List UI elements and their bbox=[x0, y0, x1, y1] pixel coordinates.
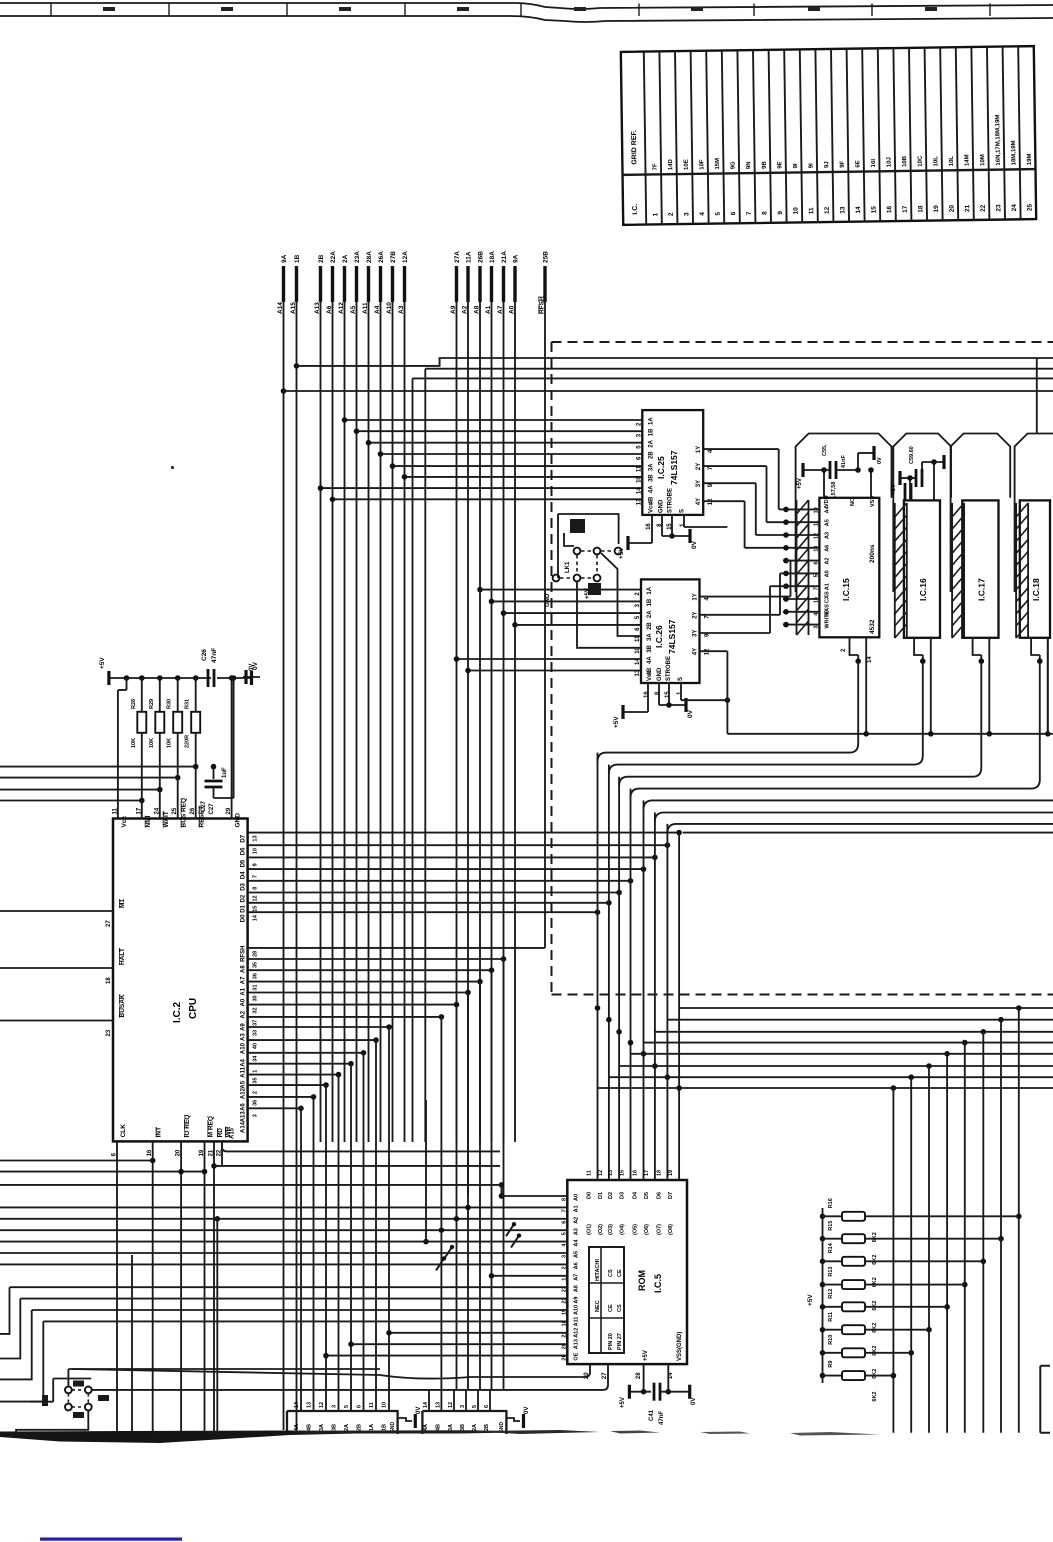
svg-text:C27: C27 bbox=[209, 803, 215, 815]
svg-text:A1: A1 bbox=[573, 1205, 579, 1212]
svg-text:D4: D4 bbox=[633, 1191, 639, 1199]
svg-text:10: 10 bbox=[253, 848, 259, 854]
svg-text:1: 1 bbox=[253, 1070, 259, 1073]
svg-text:6K2: 6K2 bbox=[872, 1232, 878, 1242]
svg-text:5: 5 bbox=[344, 1405, 350, 1408]
svg-text:A14: A14 bbox=[241, 1121, 247, 1133]
svg-text:10: 10 bbox=[636, 476, 642, 483]
svg-text:(O3): (O3) bbox=[608, 1224, 614, 1235]
svg-text:(O8): (O8) bbox=[668, 1224, 674, 1235]
svg-text:18A: 18A bbox=[489, 251, 496, 263]
svg-text:D7: D7 bbox=[668, 1192, 674, 1199]
svg-text:26A: 26A bbox=[378, 251, 385, 263]
svg-text:5: 5 bbox=[715, 211, 722, 215]
svg-text:15: 15 bbox=[620, 1170, 626, 1176]
svg-text:47nF: 47nF bbox=[659, 1411, 665, 1425]
svg-text:STROBE: STROBE bbox=[666, 656, 672, 681]
resistor R10 6K2 bbox=[820, 1335, 912, 1379]
CPU bottom pin verticals bbox=[117, 1141, 500, 1433]
svg-text:0V: 0V bbox=[687, 709, 694, 718]
capacitor C26 47nF bbox=[201, 648, 259, 687]
ink speck bbox=[171, 466, 174, 469]
svg-text:15: 15 bbox=[253, 906, 259, 912]
ROM power rail with C41 bbox=[620, 1364, 697, 1425]
svg-text:13: 13 bbox=[839, 206, 846, 214]
svg-text:R30: R30 bbox=[167, 699, 173, 709]
address line A11 (edge tag 28A) bbox=[362, 251, 373, 314]
svg-text:BUS REQ: BUS REQ bbox=[181, 798, 188, 828]
RAM IC15 bus ribbon bbox=[796, 500, 798, 635]
svg-text:CE: CE bbox=[608, 1304, 614, 1312]
svg-text:BUSAK: BUSAK bbox=[119, 994, 126, 1017]
svg-text:+5V: +5V bbox=[797, 478, 803, 489]
svg-text:(O5): (O5) bbox=[633, 1224, 639, 1235]
connector box IC (bottom left, cut off) bbox=[287, 1401, 422, 1434]
svg-text:18: 18 bbox=[917, 205, 924, 213]
svg-text:(O1): (O1) bbox=[587, 1224, 593, 1235]
svg-text:220R: 220R bbox=[185, 735, 191, 748]
svg-text:1B: 1B bbox=[647, 598, 653, 606]
svg-text:GRID REF.: GRID REF. bbox=[631, 130, 638, 165]
svg-text:(O2): (O2) bbox=[598, 1224, 604, 1235]
svg-text:C59,60: C59,60 bbox=[909, 446, 915, 464]
svg-text:3: 3 bbox=[813, 626, 819, 629]
svg-text:A7: A7 bbox=[241, 976, 247, 984]
svg-text:9A: 9A bbox=[281, 254, 288, 263]
svg-text:74LS157: 74LS157 bbox=[667, 619, 677, 654]
svg-text:13: 13 bbox=[307, 1402, 313, 1408]
svg-text:18M,19M: 18M,19M bbox=[1011, 140, 1017, 165]
svg-text:4B: 4B bbox=[435, 1424, 441, 1431]
RAM address pin stub wires bbox=[783, 507, 819, 628]
svg-text:10J: 10J bbox=[887, 157, 893, 167]
svg-text:CS: CS bbox=[617, 1304, 623, 1312]
resistor R11 6K2 bbox=[820, 1312, 929, 1356]
svg-text:74LS157: 74LS157 bbox=[669, 450, 679, 485]
svg-text:1B: 1B bbox=[382, 1424, 388, 1431]
svg-text:12: 12 bbox=[448, 1402, 454, 1408]
svg-text:ROM: ROM bbox=[637, 1270, 647, 1291]
svg-text:C27: C27 bbox=[201, 800, 207, 812]
svg-text:INT: INT bbox=[156, 1127, 163, 1138]
svg-text:A12: A12 bbox=[241, 1087, 247, 1099]
svg-text:I.C.17: I.C.17 bbox=[976, 578, 986, 601]
multiplexer IC26 74LS157 bbox=[454, 579, 711, 698]
resistor R31 220R bbox=[185, 678, 201, 767]
svg-text:31: 31 bbox=[253, 984, 259, 990]
svg-text:A6: A6 bbox=[573, 1262, 579, 1269]
svg-text:10L: 10L bbox=[949, 156, 955, 167]
svg-text:+5V: +5V bbox=[807, 1294, 814, 1306]
resistor R13 6K2 bbox=[820, 1267, 965, 1311]
svg-text:10M: 10M bbox=[980, 154, 986, 166]
svg-text:2: 2 bbox=[668, 212, 675, 216]
address line A7 (edge tag 21A) bbox=[497, 251, 508, 314]
svg-text:6K2: 6K2 bbox=[872, 1369, 878, 1379]
svg-text:19: 19 bbox=[933, 205, 940, 213]
svg-text:40: 40 bbox=[253, 1043, 259, 1049]
svg-text:14: 14 bbox=[867, 656, 873, 663]
svg-text:10K: 10K bbox=[149, 738, 155, 748]
svg-text:R16: R16 bbox=[828, 1198, 834, 1208]
svg-text:25: 25 bbox=[1027, 204, 1034, 212]
svg-text:0V: 0V bbox=[691, 540, 698, 549]
svg-text:D1: D1 bbox=[241, 904, 247, 912]
svg-text:I.C.16: I.C.16 bbox=[918, 578, 928, 601]
svg-text:Vcc: Vcc bbox=[121, 816, 128, 828]
svg-text:+5V: +5V bbox=[99, 657, 106, 669]
svg-text:A5: A5 bbox=[824, 519, 830, 526]
svg-text:NMI: NMI bbox=[145, 815, 152, 827]
svg-text:3: 3 bbox=[561, 1255, 567, 1258]
svg-text:14: 14 bbox=[855, 206, 862, 214]
svg-text:17: 17 bbox=[902, 205, 909, 213]
svg-text:A7: A7 bbox=[573, 1274, 579, 1281]
bus wires from A15 A14 to right edge bbox=[281, 358, 1053, 1142]
svg-text:2A: 2A bbox=[648, 439, 654, 447]
svg-text:2A: 2A bbox=[342, 254, 349, 263]
address line A8 (edge tag 26B) bbox=[474, 251, 485, 314]
svg-text:13: 13 bbox=[608, 1170, 614, 1176]
svg-text:30: 30 bbox=[253, 995, 259, 1001]
svg-text:5: 5 bbox=[561, 1232, 567, 1235]
svg-text:M REQ: M REQ bbox=[208, 1116, 215, 1137]
svg-text:10: 10 bbox=[793, 207, 800, 215]
+5V rail above CPU bbox=[99, 657, 252, 819]
svg-text:11: 11 bbox=[636, 465, 642, 472]
svg-text:18: 18 bbox=[656, 1170, 662, 1176]
svg-text:IO REQ: IO REQ bbox=[184, 1115, 191, 1138]
svg-text:A4: A4 bbox=[573, 1239, 579, 1247]
svg-text:34: 34 bbox=[253, 1055, 259, 1062]
svg-text:A8: A8 bbox=[241, 965, 247, 973]
svg-text:I.C.25: I.C.25 bbox=[656, 456, 666, 479]
svg-text:23: 23 bbox=[106, 1029, 112, 1036]
svg-text:I.C.5: I.C.5 bbox=[653, 1274, 663, 1293]
svg-text:I.C.26: I.C.26 bbox=[654, 625, 664, 648]
svg-text:S: S bbox=[679, 509, 685, 513]
address line A13 (edge tag 2B) bbox=[314, 254, 325, 314]
svg-text:36: 36 bbox=[253, 1100, 259, 1106]
RAM IC15 bottom pins bbox=[841, 637, 873, 734]
svg-text:9E: 9E bbox=[777, 161, 783, 168]
svg-text:R15: R15 bbox=[828, 1221, 834, 1231]
svg-text:RFSH: RFSH bbox=[241, 946, 247, 962]
svg-text:A9: A9 bbox=[573, 1297, 579, 1304]
svg-text:12: 12 bbox=[824, 206, 831, 214]
svg-text:D6: D6 bbox=[241, 847, 247, 855]
svg-text:15: 15 bbox=[871, 206, 878, 214]
svg-text:18: 18 bbox=[106, 977, 112, 984]
svg-text:D2: D2 bbox=[241, 894, 247, 902]
svg-text:A6: A6 bbox=[241, 1103, 247, 1111]
svg-text:13: 13 bbox=[435, 1402, 441, 1408]
svg-text:4532: 4532 bbox=[869, 619, 876, 634]
svg-text:10L: 10L bbox=[933, 156, 939, 167]
svg-text:2B: 2B bbox=[648, 451, 654, 459]
resistor R9 6K2 bbox=[820, 1361, 894, 1402]
blue pen underline bottom left bbox=[40, 1538, 182, 1541]
svg-text:17: 17 bbox=[644, 1170, 650, 1176]
address line A10 (edge tag 27B) bbox=[386, 251, 397, 314]
svg-text:11A: 11A bbox=[466, 251, 473, 263]
svg-text:4A: 4A bbox=[423, 1424, 429, 1431]
svg-text:+5V: +5V bbox=[613, 716, 620, 728]
svg-text:CPU: CPU bbox=[188, 998, 199, 1019]
address line A5 (edge tag 23A) bbox=[350, 251, 361, 314]
svg-text:9I: 9I bbox=[793, 163, 799, 168]
svg-text:D6: D6 bbox=[656, 1192, 662, 1199]
svg-text:6: 6 bbox=[561, 1221, 567, 1224]
svg-text:13: 13 bbox=[636, 498, 642, 505]
svg-text:4Y: 4Y bbox=[693, 648, 699, 655]
svg-text:16I: 16I bbox=[871, 159, 877, 168]
RAM IC18 bottom pins bbox=[1031, 638, 1048, 734]
svg-text:D3: D3 bbox=[241, 882, 247, 890]
svg-text:20: 20 bbox=[949, 205, 956, 213]
connector box IC (bottom middle, cut off) bbox=[422, 1390, 530, 1434]
svg-text:CLK: CLK bbox=[120, 1124, 127, 1138]
svg-text:3A: 3A bbox=[647, 633, 653, 641]
svg-text:PIN 20: PIN 20 bbox=[608, 1333, 614, 1350]
svg-text:3B: 3B bbox=[647, 644, 653, 652]
scanner edge smear bbox=[0, 1430, 880, 1443]
svg-text:D7: D7 bbox=[241, 834, 247, 842]
RAM IC15 envelope bbox=[796, 434, 892, 593]
svg-text:9J: 9J bbox=[824, 161, 830, 168]
svg-text:9I: 9I bbox=[809, 163, 815, 168]
svg-text:VDD: VDD bbox=[824, 495, 830, 507]
svg-text:28A: 28A bbox=[366, 251, 373, 263]
CPU control input taps from left edge bbox=[0, 675, 234, 818]
address line A4 (edge tag 26A) bbox=[374, 251, 385, 314]
svg-text:2A: 2A bbox=[647, 610, 653, 618]
svg-text:28: 28 bbox=[636, 1372, 642, 1379]
svg-text:16: 16 bbox=[644, 691, 650, 698]
svg-text:7: 7 bbox=[813, 587, 819, 590]
IC grid-reference table bbox=[621, 46, 1036, 225]
svg-text:3Y: 3Y bbox=[696, 480, 702, 487]
svg-text:6K2: 6K2 bbox=[872, 1323, 878, 1333]
ROM address pin wires bbox=[0, 1100, 567, 1433]
svg-text:3B: 3B bbox=[332, 1424, 338, 1431]
svg-text:3A: 3A bbox=[319, 1424, 325, 1431]
left edge elbow wires to ROM pins bbox=[0, 1287, 43, 1401]
RAM IC16 decoupling capacitors C59 C60 bbox=[891, 446, 944, 501]
svg-text:HALT: HALT bbox=[119, 948, 126, 965]
dashed boundary top horizontal bbox=[552, 341, 1053, 343]
address bus vertical wires from top labels bbox=[284, 300, 546, 1430]
svg-text:R28: R28 bbox=[131, 699, 137, 709]
svg-text:1: 1 bbox=[561, 1278, 567, 1281]
svg-text:25B: 25B bbox=[543, 251, 550, 263]
IC26 power wiring bbox=[613, 683, 730, 728]
CPU IC2 bbox=[0, 798, 259, 1157]
svg-text:14D: 14D bbox=[668, 158, 674, 170]
svg-text:(O6): (O6) bbox=[644, 1224, 650, 1235]
svg-text:A3: A3 bbox=[573, 1228, 579, 1235]
svg-text:41nF: 41nF bbox=[841, 455, 847, 468]
svg-text:1B: 1B bbox=[294, 254, 301, 263]
svg-text:24: 24 bbox=[1011, 204, 1018, 212]
svg-text:12: 12 bbox=[598, 1170, 604, 1176]
RAM IC15 4532 bbox=[813, 495, 879, 637]
svg-text:12A: 12A bbox=[402, 251, 409, 263]
svg-text:A6: A6 bbox=[824, 545, 830, 552]
svg-text:10: 10 bbox=[813, 507, 819, 513]
RAM WRITE line from IC26 4Y bbox=[700, 638, 1053, 737]
svg-text:HITACHI: HITACHI bbox=[595, 1259, 601, 1281]
svg-text:12: 12 bbox=[319, 1402, 325, 1408]
svg-text:R29: R29 bbox=[149, 699, 155, 709]
svg-text:WAIT: WAIT bbox=[163, 811, 170, 827]
link block LK2 bottom left bbox=[16, 1369, 380, 1434]
svg-text:3: 3 bbox=[253, 1114, 259, 1117]
svg-text:27: 27 bbox=[106, 920, 112, 927]
svg-text:21A: 21A bbox=[501, 251, 508, 263]
CPU data bus D7-D0 wires to ROM verticals bbox=[248, 753, 1053, 1433]
RAM IC16 bus ribbon bbox=[894, 503, 896, 638]
svg-text:D0: D0 bbox=[587, 1192, 593, 1199]
svg-text:14: 14 bbox=[423, 1401, 429, 1408]
svg-text:WRITE: WRITE bbox=[824, 611, 830, 629]
svg-text:R31: R31 bbox=[185, 699, 191, 709]
svg-text:7F: 7F bbox=[653, 163, 659, 170]
svg-text:3: 3 bbox=[332, 1405, 338, 1408]
svg-text:9A: 9A bbox=[513, 254, 520, 263]
address line A6 (edge tag 22A) bbox=[326, 251, 337, 314]
svg-text:A3: A3 bbox=[241, 1033, 247, 1041]
RAM data bus fan wires bbox=[598, 661, 1053, 833]
svg-text:I.C.2: I.C.2 bbox=[172, 1001, 183, 1023]
svg-text:16: 16 bbox=[633, 1170, 639, 1176]
svg-text:1A: 1A bbox=[647, 586, 653, 594]
svg-text:C55,: C55, bbox=[822, 444, 828, 456]
descending bus verticals below CPU bbox=[301, 959, 504, 1411]
svg-text:4A: 4A bbox=[647, 656, 653, 664]
svg-text:1uF: 1uF bbox=[222, 767, 228, 778]
IC25 output wires to RAM address pins bbox=[703, 449, 786, 548]
svg-text:(O4): (O4) bbox=[620, 1224, 626, 1235]
svg-text:10: 10 bbox=[382, 1402, 388, 1408]
svg-text:D5: D5 bbox=[644, 1192, 650, 1199]
svg-text:15: 15 bbox=[665, 691, 671, 698]
svg-text:S: S bbox=[678, 677, 684, 681]
svg-text:2Y: 2Y bbox=[693, 611, 699, 618]
svg-text:9: 9 bbox=[253, 863, 259, 866]
RAM IC18 bus ribbon bbox=[1015, 503, 1017, 638]
address line A15 (edge tag 1B) bbox=[290, 254, 301, 314]
dashed boundary bottom horizontal bbox=[552, 994, 1053, 996]
svg-text:R13: R13 bbox=[828, 1267, 834, 1277]
svg-text:R9: R9 bbox=[828, 1361, 834, 1368]
edge connector fragment right margin bbox=[1040, 1366, 1050, 1433]
svg-text:1Y: 1Y bbox=[696, 446, 702, 453]
svg-text:A10: A10 bbox=[241, 1042, 247, 1054]
svg-text:A5: A5 bbox=[241, 1080, 247, 1088]
svg-text:33: 33 bbox=[253, 1030, 259, 1036]
RAM IC15 decoupling capacitors C55-58 bbox=[797, 444, 883, 503]
svg-text:3A: 3A bbox=[648, 463, 654, 471]
svg-text:CE: CE bbox=[617, 1269, 623, 1277]
svg-text:27B: 27B bbox=[390, 251, 397, 263]
svg-text:M1: M1 bbox=[119, 899, 126, 908]
svg-text:8: 8 bbox=[253, 887, 259, 890]
address line A1 (edge tag 18A) bbox=[485, 251, 496, 314]
0V terminal left of bundle bbox=[243, 664, 260, 684]
address line A3 (edge tag 12A) bbox=[398, 251, 409, 314]
svg-text:10F: 10F bbox=[699, 159, 705, 170]
svg-text:10K: 10K bbox=[131, 738, 137, 748]
IC25 power wiring bbox=[618, 515, 727, 559]
svg-text:3B: 3B bbox=[648, 474, 654, 482]
svg-text:A0: A0 bbox=[824, 570, 830, 577]
svg-text:R14: R14 bbox=[828, 1242, 834, 1253]
svg-text:2A: 2A bbox=[472, 1424, 478, 1431]
svg-text:9F: 9F bbox=[840, 160, 846, 167]
svg-text:I.C.: I.C. bbox=[632, 204, 639, 215]
svg-text:23A: 23A bbox=[354, 251, 361, 263]
svg-text:1B: 1B bbox=[648, 428, 654, 436]
svg-text:4: 4 bbox=[699, 212, 706, 216]
svg-text:10K: 10K bbox=[167, 738, 173, 748]
resistor R16 6K2 bbox=[820, 1198, 1019, 1242]
svg-text:47nF: 47nF bbox=[211, 648, 218, 663]
svg-text:15: 15 bbox=[813, 597, 819, 603]
svg-text:STROBE: STROBE bbox=[667, 488, 673, 513]
ROM chip-select wires to LK2 bbox=[72, 1364, 608, 1390]
svg-text:19M: 19M bbox=[1027, 153, 1033, 165]
svg-text:6: 6 bbox=[484, 1405, 490, 1408]
svg-text:+5V: +5V bbox=[891, 484, 897, 495]
address line A2 (edge tag 11A) bbox=[462, 251, 473, 314]
svg-text:A1: A1 bbox=[824, 583, 830, 590]
dashed boundary vertical bbox=[551, 342, 553, 995]
svg-text:4A: 4A bbox=[648, 485, 654, 493]
svg-text:CS: CS bbox=[608, 1269, 614, 1277]
ROM IC5 bbox=[561, 1170, 687, 1379]
svg-text:WR: WR bbox=[225, 1126, 232, 1137]
link block LK1 with transistor bbox=[545, 514, 641, 648]
RAM IC16 bottom pins bbox=[914, 638, 931, 734]
svg-text:+5V: +5V bbox=[620, 1397, 626, 1408]
svg-text:27A: 27A bbox=[454, 251, 461, 263]
svg-text:A0: A0 bbox=[573, 1194, 579, 1201]
svg-text:Vcc: Vcc bbox=[647, 670, 653, 681]
svg-text:12: 12 bbox=[253, 895, 259, 901]
svg-text:3: 3 bbox=[683, 212, 690, 216]
svg-text:R12: R12 bbox=[828, 1289, 834, 1299]
svg-text:7: 7 bbox=[746, 211, 753, 215]
svg-text:R11: R11 bbox=[828, 1312, 834, 1322]
RAM IC16 bbox=[904, 500, 940, 637]
multiplexer IC25 74LS157 bbox=[318, 410, 715, 530]
svg-text:A2: A2 bbox=[241, 1010, 247, 1018]
svg-text:12: 12 bbox=[813, 533, 819, 539]
svg-text:35: 35 bbox=[253, 962, 259, 968]
svg-text:A1: A1 bbox=[241, 987, 247, 995]
left edge control bus wires bbox=[0, 1158, 502, 1185]
svg-text:D2: D2 bbox=[608, 1192, 614, 1199]
svg-text:A12: A12 bbox=[573, 1328, 579, 1338]
svg-text:A11: A11 bbox=[573, 1317, 579, 1327]
svg-text:R10: R10 bbox=[828, 1335, 834, 1345]
svg-text:10B: 10B bbox=[902, 155, 908, 167]
RAM IC18 envelope bbox=[1015, 434, 1053, 593]
address line RFSH (edge tag 25B) bbox=[539, 251, 550, 314]
IC26 output wires to RAM pins bbox=[700, 561, 791, 633]
svg-text:A0: A0 bbox=[241, 998, 247, 1006]
